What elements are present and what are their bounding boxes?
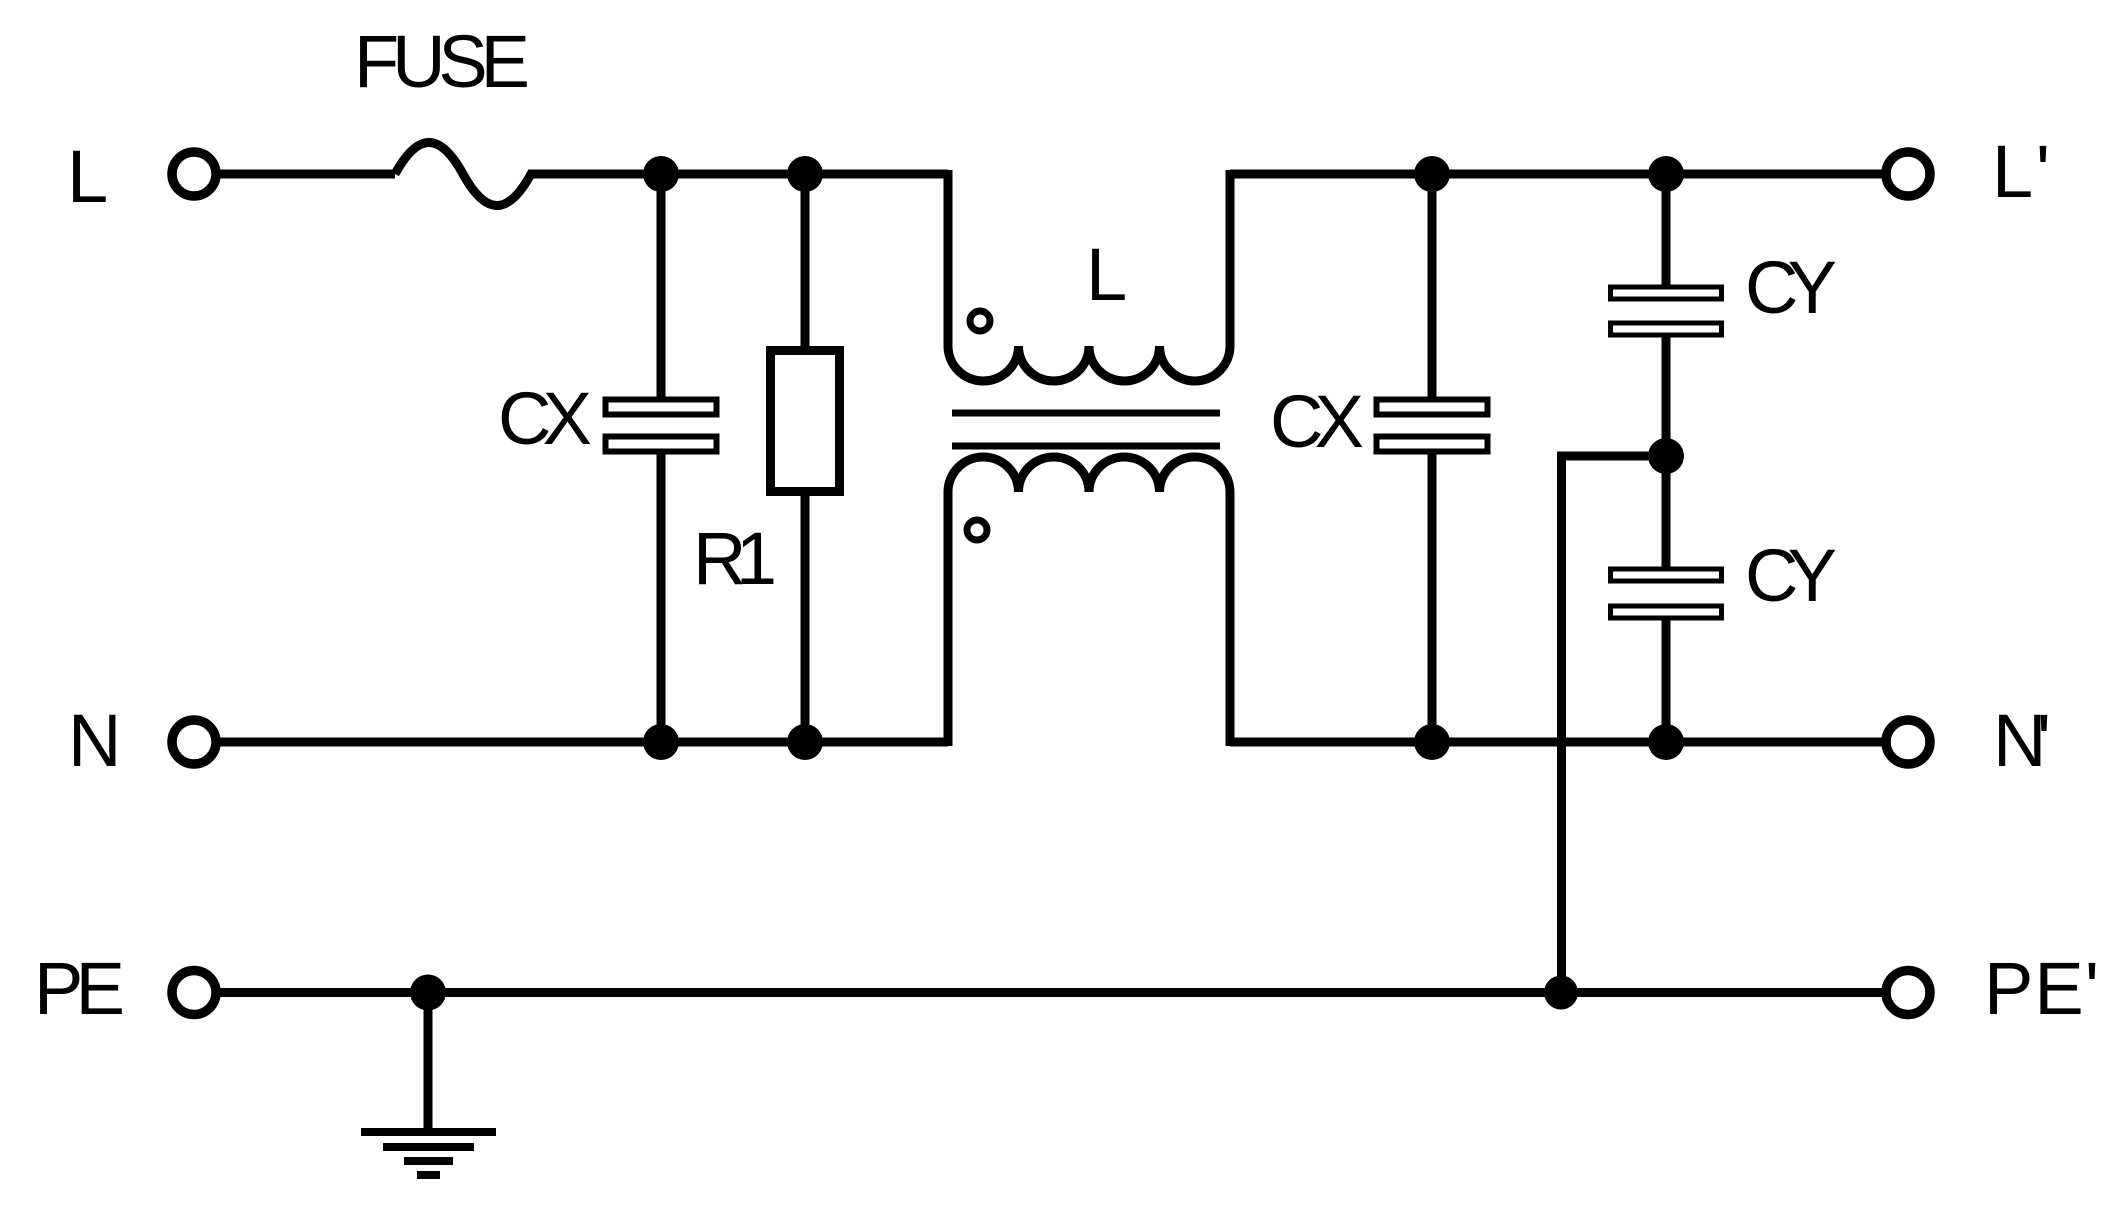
svg-text:L: L (1086, 233, 1127, 316)
svg-text:CX: CX (1270, 380, 1364, 463)
svg-text:L: L (67, 135, 108, 218)
svg-text:PE: PE (34, 947, 125, 1030)
svg-text:FUSE: FUSE (354, 20, 530, 103)
svg-text:N: N (68, 699, 121, 782)
svg-text:CY: CY (1745, 246, 1837, 329)
svg-text:CY: CY (1745, 534, 1837, 617)
svg-text:L': L' (1992, 130, 2050, 213)
svg-text:PE': PE' (1984, 947, 2099, 1030)
svg-text:R1: R1 (693, 517, 777, 600)
svg-text:CX: CX (498, 377, 592, 460)
svg-text:N': N' (1993, 699, 2051, 782)
